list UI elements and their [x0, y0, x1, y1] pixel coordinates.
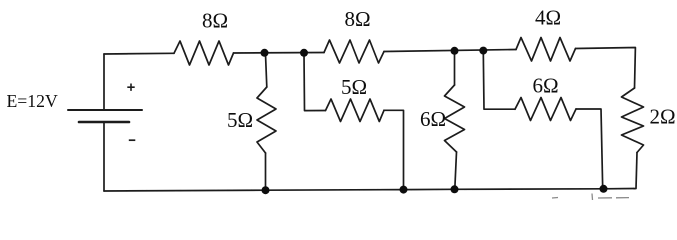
svg-text:2Ω: 2Ω — [650, 104, 676, 128]
wire top-right corner — [576, 48, 636, 89]
bottom junction dot under 5Ω horizontal — [400, 186, 408, 194]
wire left battery bottom — [103, 122, 105, 191]
battery E short plate — [79, 121, 129, 124]
resistor 2Ω (vertical right) — [622, 88, 644, 153]
node E junction dot — [479, 47, 487, 55]
wire node E down to 6Ω horizontal — [483, 52, 515, 109]
scan artifact marks at bottom edge — [552, 197, 558, 200]
resistor 8Ω left (top row) — [174, 41, 234, 65]
resistor 5Ω (vertical) — [257, 87, 276, 153]
resistor 4Ω (top row) — [516, 38, 576, 62]
node C junction dot — [300, 49, 308, 57]
wire node D to 6Ω vertical — [454, 52, 456, 85]
wire node C down to 5Ω horizontal — [304, 54, 326, 111]
bottom junction dot under 6Ω vertical — [451, 185, 459, 193]
wire top between 8Ω resistors — [234, 52, 325, 55]
wire node B to 5Ω vertical — [266, 54, 267, 87]
wire 5Ω vertical to bottom — [265, 153, 267, 190]
resistor 6Ω (vertical) — [445, 85, 465, 152]
battery − polarity sign — [129, 139, 136, 141]
resistor 6Ω (horizontal) — [515, 98, 576, 121]
wire 6Ω vertical to bottom — [455, 152, 457, 189]
svg-text:5Ω: 5Ω — [227, 108, 253, 132]
battery E long plate — [68, 109, 142, 111]
wire bottom rail — [104, 189, 634, 192]
resistor 5Ω (horizontal) — [326, 99, 385, 122]
battery + polarity sign — [127, 84, 134, 91]
svg-text:4Ω: 4Ω — [535, 6, 561, 30]
bottom junction dot under 6Ω horizontal — [600, 185, 608, 193]
wire left battery top — [103, 54, 105, 110]
resistor 8Ω right (top row) — [324, 40, 384, 63]
wire top between 8Ω and 4Ω — [384, 50, 516, 52]
bottom junction dot under 5Ω vertical — [262, 186, 270, 194]
node B junction dot — [261, 49, 269, 57]
svg-text:5Ω: 5Ω — [341, 75, 367, 99]
wire 6Ω horizontal to bottom — [576, 109, 603, 189]
svg-text:8Ω: 8Ω — [345, 7, 371, 31]
node D junction dot — [451, 47, 459, 55]
svg-text:6Ω: 6Ω — [420, 107, 446, 131]
wire 2Ω to bottom — [634, 153, 637, 189]
wire 5Ω horizontal to bottom — [384, 110, 404, 189]
wire top-left segment — [104, 52, 174, 55]
svg-text:6Ω: 6Ω — [533, 74, 559, 98]
svg-text:8Ω: 8Ω — [202, 9, 228, 33]
svg-text:E=12V: E=12V — [7, 91, 58, 111]
